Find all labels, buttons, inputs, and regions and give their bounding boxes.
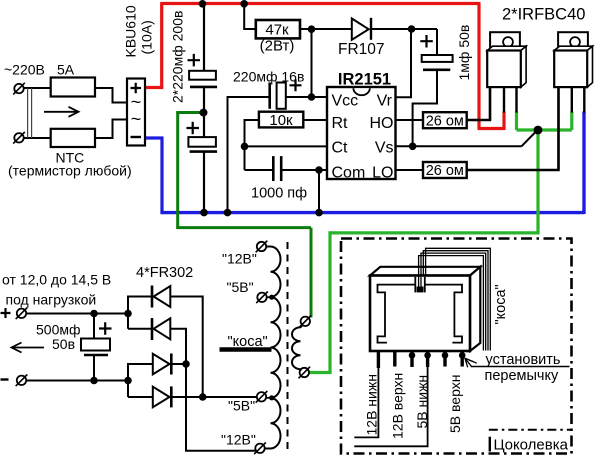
wire 5V bottom tap stub	[266, 397, 270, 399]
transformer T1 secondary winding	[265, 247, 281, 449]
capacitor C1 220uF 200V plates	[189, 71, 217, 87]
rectifier KBU610 body	[127, 79, 145, 146]
wire D1 cathode to plus bus	[128, 297, 152, 329]
wire kosa braid bundle	[419, 248, 491, 350]
node dot on rail at 47k branch	[240, 0, 248, 8]
label minus output	[1, 378, 9, 380]
arrow to jumper pins	[465, 358, 477, 367]
capacitor C2 220uF 200V plates	[188, 137, 217, 152]
wire dark green: down to primary top terminal	[310, 228, 313, 318]
capacitor C5 1000pF plates	[273, 156, 281, 181]
wire blue negative rail: bottom horizontal	[160, 211, 584, 214]
wire bright green: Q2 drain leg segment	[570, 112, 573, 131]
svg-text:(10А): (10А)	[139, 20, 155, 54]
svg-text:~220В: ~220В	[4, 62, 45, 78]
wire D4 left to minus bus	[128, 396, 153, 398]
wire bright green: midpoint vertical down	[536, 130, 539, 233]
arrow mains flow	[44, 107, 79, 117]
wire 5V top tap stub	[267, 296, 271, 298]
wire blue negative rail: left vertical	[160, 137, 163, 213]
bobbin window right bracket	[425, 285, 462, 343]
terminal output minus	[16, 375, 28, 387]
svg-text:Vr: Vr	[377, 93, 393, 110]
wire dark green: horizontal to primary top	[176, 226, 311, 229]
wire Ct node to Ct pin	[245, 145, 328, 147]
terminal output plus	[16, 308, 28, 320]
svg-text:"5В": "5В"	[227, 279, 254, 295]
diode D2 FR302	[152, 318, 170, 340]
wire C1 to C2	[203, 87, 205, 137]
terminal input N	[13, 132, 25, 144]
thermistor NTC	[51, 129, 95, 147]
wire C3 left to ground	[228, 97, 270, 213]
wire bright green: half-bridge midpoint horizontal	[517, 128, 572, 131]
svg-text:26 ом: 26 ом	[426, 113, 464, 129]
svg-text:IR2151: IR2151	[338, 71, 391, 89]
node Ct junction	[241, 143, 249, 151]
wire Vs pin to midpoint	[396, 145, 522, 147]
svg-text:"12В": "12В"	[222, 251, 257, 267]
node 5V top tap	[269, 295, 274, 300]
capacitor C3 plus sign	[290, 79, 302, 91]
svg-text:2*220мф 200в: 2*220мф 200в	[170, 11, 186, 103]
U1 notch	[353, 88, 369, 95]
wire D4 cathode to 5V bottom tap	[171, 396, 256, 398]
node Com junction	[315, 166, 323, 174]
capacitor C6 plus sign	[99, 322, 112, 335]
node diode output	[408, 25, 416, 33]
pin 5 bobbin	[442, 351, 449, 367]
wire NTC to bridge ac2	[95, 120, 127, 139]
wire C5 to Com pin	[281, 169, 327, 171]
svg-text:50в: 50в	[52, 336, 75, 352]
svg-text:KBU610: KBU610	[123, 5, 139, 57]
resistor R2 10k	[259, 112, 303, 128]
arrow to load	[12, 343, 45, 353]
wire rail to C1	[203, 4, 205, 71]
terminal 5V top	[256, 292, 268, 304]
op-amp U1 IR2151 body	[327, 87, 396, 179]
transistor Q2 IRFBC40	[554, 32, 592, 170]
wire 10k to Rt pin	[303, 119, 327, 121]
svg-text:26 ом: 26 ом	[426, 163, 464, 179]
svg-text:2*IRFBC40: 2*IRFBC40	[502, 6, 585, 24]
node plus at C6	[90, 310, 98, 318]
wire LO pin to R4	[396, 169, 424, 171]
capacitor C4 1uF plus sign	[420, 35, 433, 48]
diode D1 FR302	[152, 286, 170, 308]
pinout dash-dot box	[341, 239, 572, 454]
wire pin4 lead	[354, 367, 427, 446]
svg-text:~: ~	[131, 109, 142, 129]
wire bright green: Q1 source leg segment	[515, 112, 518, 131]
wire D3 anode to minus bus	[128, 364, 153, 397]
wire to C5 left plate	[245, 169, 274, 171]
wire red positive rail: top horizontal	[160, 2, 480, 5]
svg-text:"5В": "5В"	[228, 398, 255, 414]
svg-text:FR107: FR107	[338, 41, 385, 58]
pin 1 bobbin	[377, 351, 380, 368]
node half-bridge midpoint	[534, 126, 543, 135]
resistor R3 26 ohm	[423, 112, 467, 128]
wire 47k to diode node	[300, 28, 352, 30]
wire HO pin to R3	[396, 119, 424, 121]
pinout label compartment bar	[489, 437, 491, 452]
diode D5 FR107	[352, 18, 371, 40]
node 5V bottom tap	[269, 395, 274, 400]
bobbin side face	[470, 267, 480, 351]
transformer T1 primary winding	[292, 325, 302, 369]
wire red positive rail: jog to Q1 drain	[478, 112, 505, 129]
svg-text:5А: 5А	[57, 62, 75, 78]
svg-text:HO: HO	[370, 115, 394, 132]
wire bright green: stub to primary bottom terminal	[309, 371, 332, 374]
svg-text:установить: установить	[486, 352, 561, 368]
wire C3 right to Vcc pin	[286, 96, 327, 98]
bobbin front face	[370, 276, 470, 352]
capacitor C6 500uF plates	[81, 314, 110, 381]
terminal 12V bottom	[254, 443, 266, 455]
transformer core dashed line	[287, 242, 289, 452]
wire R4 to Q2 gate	[467, 86, 559, 170]
wire blue negative rail: bridge minus stub	[145, 136, 164, 139]
wire fuse to bridge ac1	[95, 88, 127, 103]
pin 6 bobbin	[459, 351, 466, 367]
terminal 5V bottom	[256, 391, 268, 403]
wire input N to NTC	[24, 137, 51, 139]
node D3 cathode junction	[182, 360, 190, 368]
resistor R4 26 ohm	[423, 162, 467, 178]
diode D4 FR302	[153, 386, 172, 407]
svg-text:Rt: Rt	[332, 115, 349, 132]
capacitor C2 220uF plus sign	[187, 122, 200, 135]
bobbin slot	[415, 277, 425, 293]
wire input L to fuse	[24, 87, 51, 89]
svg-text:"коса": "коса"	[493, 284, 509, 324]
pin + of bridge	[131, 83, 142, 94]
wire 10k left down to Ct node	[245, 120, 259, 170]
wire C4 bottom to Vs node	[413, 70, 437, 147]
svg-text:Ct: Ct	[332, 140, 349, 157]
wire D1 anode right and down	[170, 297, 202, 398]
pin 2 bobbin	[393, 351, 396, 367]
wire red positive rail: right vertical	[477, 4, 480, 129]
wire 47k node down to Vcc wire	[311, 29, 313, 97]
wire D3 cathode to D2 line	[171, 363, 186, 365]
label plus output	[1, 308, 11, 318]
bobbin window left bracket	[378, 285, 416, 343]
wire plus output	[26, 313, 128, 315]
wire R3 to Q1 gate	[467, 86, 490, 120]
svg-text:LO: LO	[372, 165, 393, 182]
svg-text:5В нижн: 5В нижн	[414, 375, 430, 429]
svg-text:Цоколевка: Цоколевка	[494, 437, 569, 454]
node 47k diode junction	[308, 25, 316, 33]
svg-text:(2Вт): (2Вт)	[260, 38, 295, 55]
bobbin top face	[370, 267, 480, 276]
svg-text:Vs: Vs	[375, 139, 394, 156]
resistor R1 47k	[256, 20, 300, 38]
svg-text:12В нижн: 12В нижн	[364, 374, 380, 435]
wire kosa braid bar	[220, 347, 272, 351]
wire node down to Vr pin	[396, 29, 412, 97]
wire C2 to blue rail	[203, 152, 205, 213]
capacitor C1 220uF plus sign	[188, 54, 201, 67]
node capacitor midpoint	[200, 109, 208, 117]
terminal primary top	[300, 316, 312, 328]
terminal input L	[13, 83, 25, 95]
terminal primary bottom	[299, 367, 311, 379]
wire bright green: horizontal above pinout box	[330, 231, 540, 234]
wire dark green: capacitor midpoint stub	[176, 111, 203, 114]
wire minus output	[26, 380, 128, 382]
wire Com node to ground	[318, 170, 320, 213]
node minus bus	[124, 377, 132, 385]
transistor Q1 IRFBC40	[487, 32, 526, 120]
wire red positive rail: left vertical	[160, 4, 163, 89]
svg-text:Com: Com	[332, 165, 366, 182]
wire pin1 lead	[354, 368, 378, 437]
node D4 junction	[199, 393, 207, 401]
svg-text:"12В": "12В"	[221, 432, 256, 448]
node dot blue rail at Com ground	[315, 209, 323, 217]
capacitor C3 220uF 16V plates	[270, 83, 286, 109]
pin - of bridge	[131, 136, 142, 138]
wire diode to vcc-cap node	[372, 28, 437, 30]
wire rail down to 47k	[244, 4, 256, 29]
svg-text:(термистор любой): (термистор любой)	[8, 163, 132, 179]
svg-text:10к: 10к	[269, 112, 293, 129]
svg-text:Vcc: Vcc	[332, 93, 359, 110]
svg-text:12В верхн: 12В верхн	[390, 373, 406, 439]
svg-text:4*FR302: 4*FR302	[136, 265, 193, 281]
node plus bus	[124, 310, 132, 318]
node Vcc junction	[308, 93, 316, 101]
diode D3 FR302	[153, 354, 172, 375]
wire D2 anode right and down to 12V bottom tap	[170, 329, 256, 451]
wire red positive rail: bridge plus stub	[145, 86, 164, 89]
svg-text:1мф 50в: 1мф 50в	[456, 25, 472, 81]
leader line install jumper	[471, 366, 570, 368]
wire D2 cathode to plus bus	[128, 328, 152, 330]
svg-text:1000 пф: 1000 пф	[251, 186, 307, 202]
wire dark green: left vertical	[176, 113, 179, 228]
node dot on rail at cap column	[199, 0, 207, 8]
svg-text:перемычку: перемычку	[485, 368, 559, 384]
node dot blue rail at C3 ground	[224, 209, 232, 217]
svg-text:47к: 47к	[265, 21, 289, 38]
node minus at C6	[90, 377, 98, 385]
pin 4 bobbin	[424, 351, 431, 367]
pin 3 bobbin	[409, 351, 416, 367]
wire bright green: down to primary bottom terminal	[328, 231, 331, 372]
braid end blob	[417, 287, 424, 293]
svg-text:под нагрузкой: под нагрузкой	[6, 292, 97, 308]
svg-text:5В верхн: 5В верхн	[447, 375, 463, 433]
svg-text:220мф 16в: 220мф 16в	[233, 69, 304, 85]
node Vs junction	[409, 143, 417, 151]
capacitor C4 1uF 50V plates	[422, 29, 453, 70]
fuse F1 5A	[51, 78, 95, 97]
wire Vs diagonal to midpoint node	[522, 131, 537, 146]
node dot blue rail at cap column	[200, 209, 208, 217]
mains cable pair lines	[28, 88, 32, 138]
pinout label compartment line	[489, 429, 572, 431]
terminal 12V top	[256, 241, 268, 253]
wire blue negative rail: right vertical to Q2 source	[582, 112, 585, 215]
svg-text:от 12,0 до 14,5 В: от 12,0 до 14,5 В	[2, 272, 111, 288]
